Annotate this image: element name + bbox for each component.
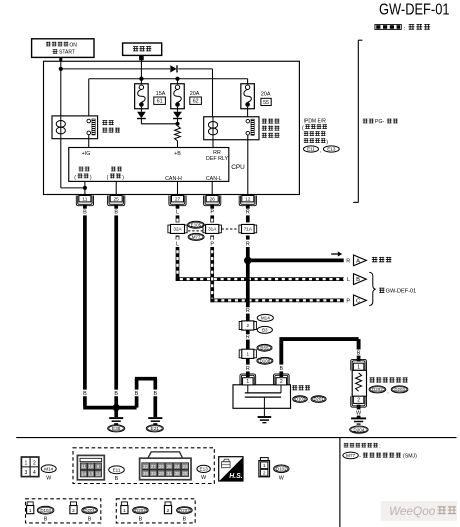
svg-text:W: W (201, 475, 206, 481)
svg-text:L: L (347, 277, 350, 283)
relay ignition (coil+contact) (52, 116, 98, 139)
dashed group box E11 E13 (73, 448, 214, 484)
svg-text:D202: D202 (135, 508, 146, 513)
label ground(power) (74, 167, 92, 181)
wire R stub to capacitor pin1 (246, 371, 250, 377)
svg-text:D100: D100 (260, 358, 271, 363)
svg-text:B: B (114, 210, 118, 216)
svg-text:2: 2 (357, 398, 360, 404)
svg-text:12: 12 (245, 196, 251, 202)
pin 25 (108, 196, 125, 206)
capacitor box (233, 385, 291, 409)
label L (176, 242, 179, 248)
connector ref E11 E13 ovals (304, 146, 340, 154)
dashed group box D103 D201 (26, 499, 101, 523)
svg-text:PG-: PG- (375, 119, 384, 125)
svg-text:4: 4 (33, 470, 36, 476)
connector ref D103 D201 ovals (293, 396, 326, 404)
label P (210, 242, 214, 248)
wire R horizontal to arrow A (248, 259, 344, 263)
pin 12 (239, 196, 256, 206)
svg-text:GW-DEF-01: GW-DEF-01 (379, 2, 450, 19)
pin 26 (204, 196, 221, 206)
svg-text:R: R (246, 210, 250, 216)
svg-text:D202: D202 (372, 387, 383, 392)
svg-text:M14: M14 (261, 316, 270, 321)
wire R upper (246, 215, 250, 222)
svg-text:,: , (387, 389, 388, 395)
wire stub pin 26 (210, 205, 214, 209)
connector ref E11 oval (109, 466, 125, 482)
svg-text:R: R (346, 259, 350, 265)
ground defogger (351, 418, 366, 424)
svg-text:15A: 15A (156, 91, 166, 97)
defogger pin 1 (351, 359, 367, 370)
wire R stub (246, 359, 250, 365)
IPDM E/R outer box (44, 61, 300, 194)
wire bus line C (89, 79, 248, 119)
wire CAN-H striped lower + horizontal to arrow B (176, 247, 344, 281)
svg-text:B: B (135, 391, 139, 397)
node ground junction (113, 404, 120, 411)
wire battery feed (139, 55, 144, 85)
wire CAN-L striped lower + horizontal to arrow C (211, 247, 344, 302)
svg-text:D201: D201 (313, 397, 324, 402)
fuse 15A 61 (135, 84, 166, 109)
svg-text:IPDM E/R: IPDM E/R (304, 118, 327, 124)
label R (246, 210, 250, 216)
wire relay2 contact to pin 12 (247, 135, 249, 195)
svg-text:24: 24 (175, 464, 180, 469)
wire relay1 contact to +IG (88, 135, 90, 148)
svg-text:ON: ON (69, 42, 77, 48)
svg-text:CAN-L: CAN-L (206, 176, 222, 182)
wire pin25 ground run (114, 215, 118, 417)
svg-text:11: 11 (82, 196, 87, 202)
svg-text:2: 2 (33, 461, 36, 467)
svg-text:B: B (88, 516, 92, 522)
svg-text:D203: D203 (394, 387, 405, 392)
connector ref M14 oval (41, 465, 56, 481)
label next page (372, 257, 392, 262)
label rear defogger relay (262, 119, 280, 138)
node coil return junction (83, 186, 87, 190)
svg-text:-: - (359, 454, 361, 460)
pin 11 (76, 196, 93, 206)
svg-text:B: B (183, 516, 187, 522)
wire ground branch pi (135, 379, 157, 417)
svg-text:WeeQoo: WeeQoo (389, 504, 436, 518)
label R (246, 242, 250, 248)
connector ref D203 oval (177, 507, 193, 523)
label see following (344, 443, 381, 450)
svg-text:2: 2 (280, 379, 283, 385)
svg-text:D102: D102 (276, 466, 287, 471)
connector view E13 grid (140, 452, 191, 480)
capacitor pin 2 (273, 374, 289, 385)
svg-text:W: W (46, 475, 51, 481)
H.S. mark (219, 457, 243, 481)
svg-text:B: B (357, 350, 361, 356)
svg-text:+IG: +IG (82, 151, 91, 157)
capacitor pin 1 (240, 374, 256, 385)
svg-text:E11: E11 (113, 467, 121, 472)
svg-text:M14: M14 (44, 466, 53, 471)
node ignition junction (59, 67, 63, 71)
connector B55/D100 inline (239, 349, 256, 358)
label B (114, 391, 118, 397)
svg-text:2: 2 (247, 323, 250, 328)
svg-text:B: B (279, 366, 283, 372)
node diode join junction (175, 122, 179, 126)
connector 31A (203, 224, 221, 233)
wire CAN-L striped mid (210, 236, 214, 240)
label see PG-POWER (363, 119, 398, 126)
svg-text:DEF RLY: DEF RLY (206, 156, 228, 162)
svg-text:26: 26 (210, 196, 216, 202)
watermark WeeQoo (381, 501, 457, 521)
wire ground power to pin 11 (84, 181, 86, 195)
capacitor element (245, 385, 281, 416)
svg-text:26: 26 (159, 464, 164, 469)
svg-text:12: 12 (96, 471, 101, 476)
svg-text:(: ( (74, 175, 76, 181)
defogger pin 2 (351, 396, 367, 407)
wire stub to ground (357, 416, 361, 418)
connector ref D102 oval (274, 465, 289, 482)
connector ref M14 B3 ovals (257, 314, 273, 333)
svg-text:D103: D103 (295, 397, 306, 402)
label to GW-DEF-01 (379, 288, 416, 295)
wire diode join (141, 123, 177, 125)
connector 32A (168, 224, 187, 233)
svg-text:B: B (44, 516, 48, 522)
wire CAN-H to pin 27 (177, 181, 179, 195)
svg-text:32A: 32A (173, 227, 182, 232)
connector ref E13 oval (197, 465, 210, 481)
connector view 2 D203 (164, 502, 171, 514)
wire stub pin 11 (83, 205, 87, 209)
svg-text:20A: 20A (190, 91, 200, 97)
connector ref D202 D203 ovals (369, 386, 408, 395)
label IPDM E/R (302, 118, 328, 145)
label B (135, 391, 139, 397)
svg-text:+B: +B (174, 151, 181, 157)
wire CAN-H striped upper (176, 215, 180, 222)
ground E21 (146, 418, 163, 432)
wire pin11 ground run (83, 215, 136, 407)
connector view E11 grid (77, 455, 104, 479)
label R (246, 308, 250, 314)
svg-text:GW-DEF-01: GW-DEF-01 (386, 289, 417, 295)
resistor R1 to +B (175, 126, 181, 148)
connector view 1 D103 (27, 502, 34, 514)
svg-text:B: B (114, 391, 118, 397)
wire R down (246, 262, 250, 307)
wire R stub (246, 314, 250, 321)
svg-text:29: 29 (159, 471, 164, 476)
svg-text:E13: E13 (327, 147, 336, 152)
svg-text:D201: D201 (84, 508, 95, 513)
svg-text:D103: D103 (40, 508, 51, 513)
svg-text:R: R (246, 334, 250, 340)
label R (346, 259, 350, 265)
title GW-DEF-01 (379, 2, 450, 19)
svg-text:31A: 31A (208, 227, 217, 232)
svg-text:B: B (356, 277, 360, 283)
svg-text:25: 25 (114, 196, 120, 202)
svg-text:E13: E13 (200, 467, 209, 472)
wire fuse3 to relay contact (247, 107, 249, 119)
connector M14/B3 inline (239, 321, 256, 330)
wire fuse2 output (177, 107, 179, 124)
svg-text:1: 1 (357, 365, 360, 371)
svg-text:E11: E11 (307, 147, 315, 152)
fuse 20A 55 (241, 84, 271, 109)
svg-text:32: 32 (143, 464, 148, 469)
label R (246, 366, 250, 372)
wire B stub to capacitor pin2 (279, 371, 283, 377)
svg-text:P: P (210, 210, 214, 216)
svg-text:,: , (308, 398, 309, 404)
brace to GW-DEF-01 (369, 272, 375, 305)
svg-text:62: 62 (193, 99, 199, 105)
ground capacitor internal (258, 417, 272, 423)
connector ref M77 SMJ (343, 452, 417, 460)
label B (279, 366, 283, 372)
node battery junction (139, 77, 143, 81)
arrow A next page (354, 255, 367, 266)
svg-text:1: 1 (263, 463, 266, 469)
diode D1 horizontal (170, 65, 177, 72)
svg-text:W: W (279, 476, 284, 482)
ignition switch box (32, 39, 94, 58)
svg-text:31: 31 (167, 471, 172, 476)
label B (114, 210, 118, 216)
svg-text:23: 23 (183, 464, 188, 469)
label ignition relay (102, 120, 120, 133)
wire R stub (246, 340, 250, 350)
connector ref D201 oval (82, 507, 98, 523)
svg-text:1: 1 (25, 461, 28, 467)
arrow C (354, 295, 367, 306)
svg-text:(: ( (302, 125, 304, 131)
svg-text:71A: 71A (244, 227, 253, 232)
dashed group box D202 D203 (116, 499, 195, 523)
label B (153, 391, 157, 397)
svg-text:E105: E105 (191, 222, 202, 227)
svg-text:2: 2 (263, 471, 266, 477)
svg-text:30: 30 (175, 471, 180, 476)
wire CAN-L to pin 26 (211, 181, 213, 195)
svg-text:B3: B3 (262, 328, 268, 333)
wire stub pin 27 (176, 205, 180, 209)
svg-text:27: 27 (151, 464, 156, 469)
node R junction (244, 257, 252, 265)
connector ref D202 oval (133, 507, 149, 523)
label capacitor (292, 385, 310, 390)
svg-text:,: , (320, 148, 321, 154)
svg-text:2: 2 (72, 508, 75, 514)
label B (357, 350, 361, 356)
svg-text:): ) (326, 139, 328, 145)
svg-text:B: B (83, 210, 87, 216)
connector view M14 grid (21, 457, 38, 477)
wire CAN-L striped upper (210, 215, 214, 222)
wire B capacitor to defogger (279, 339, 358, 365)
svg-text:27: 27 (175, 196, 181, 202)
node fuse2 junction (175, 77, 179, 85)
svg-text::: : (379, 444, 380, 450)
wire fuse1 output (140, 107, 142, 124)
svg-text:28: 28 (183, 471, 188, 476)
svg-text:61: 61 (157, 99, 163, 105)
svg-text:B: B (153, 391, 157, 397)
separator line (16, 437, 456, 439)
svg-text:H.S.: H.S. (229, 473, 242, 480)
svg-text:CPU: CPU (231, 164, 245, 171)
svg-text:): ) (90, 175, 92, 181)
svg-text:): ) (122, 175, 124, 181)
label ground(signal) (107, 167, 125, 181)
svg-text:1: 1 (123, 508, 126, 514)
svg-text:R: R (246, 366, 250, 372)
connector ref B55 D100 ovals (257, 344, 273, 364)
label B (83, 210, 87, 216)
wire diode line to rear defogger relay coil (61, 69, 213, 117)
label P (346, 299, 350, 305)
svg-text:L: L (176, 242, 179, 248)
svg-text:P: P (210, 242, 214, 248)
wire R stub (246, 330, 250, 334)
label rear window defogger (369, 377, 407, 382)
svg-text:M77: M77 (346, 453, 355, 458)
connector view 1 D202 (121, 502, 128, 514)
svg-text:START: START (59, 50, 75, 56)
label R (246, 334, 250, 340)
svg-text:E21: E21 (151, 426, 160, 432)
svg-text:B55: B55 (260, 345, 269, 350)
connector ref E105 M77 ovals (188, 221, 206, 240)
svg-text:55: 55 (263, 100, 269, 106)
svg-text:D204: D204 (353, 427, 364, 432)
label P (210, 210, 214, 216)
svg-text:(: ( (107, 175, 109, 181)
arrow B (354, 274, 367, 285)
reference box divider (339, 438, 341, 527)
svg-text:R: R (246, 308, 250, 314)
svg-text:1: 1 (29, 508, 32, 514)
bracket see PG-POWER (353, 40, 362, 202)
svg-text:B: B (139, 516, 143, 522)
diode D2 down (137, 112, 146, 119)
connector ref D204 oval (350, 426, 368, 433)
svg-text:10: 10 (88, 464, 93, 469)
battery box (123, 43, 162, 55)
svg-text:3: 3 (25, 470, 28, 476)
arrow marker (331, 252, 342, 257)
svg-text:1: 1 (247, 351, 250, 356)
svg-text:B: B (83, 391, 87, 397)
svg-text:1: 1 (246, 379, 249, 385)
wire B stub to defogger pin1 (357, 356, 361, 362)
svg-text:38: 38 (143, 471, 148, 476)
svg-text:2: 2 (167, 508, 170, 514)
connector ref D103 oval (37, 506, 54, 522)
svg-text:A: A (356, 259, 360, 265)
wire dashed 31A-71A (222, 228, 239, 230)
svg-text:(SMJ): (SMJ) (403, 454, 417, 460)
svg-text:L: L (176, 210, 179, 216)
svg-text:20A: 20A (261, 91, 271, 97)
connector view D102 (259, 458, 270, 477)
svg-text:11: 11 (81, 464, 86, 469)
wire ignition feed (59, 57, 62, 116)
label L (347, 277, 350, 283)
diode D3 down (173, 112, 182, 119)
svg-text:CAN-H: CAN-H (165, 176, 182, 182)
fuse 20A 62 (171, 84, 202, 109)
wire stub pin 12 (246, 205, 250, 209)
rear window defogger resistor box (352, 370, 366, 396)
label B (83, 391, 87, 397)
svg-text:E38: E38 (112, 426, 121, 432)
pin 27 (169, 196, 186, 206)
svg-text:M77: M77 (192, 234, 201, 239)
svg-text:13: 13 (88, 471, 93, 476)
svg-text:R: R (246, 242, 250, 248)
label L (176, 210, 179, 216)
svg-text:33: 33 (151, 471, 156, 476)
wire CAN-H striped mid (176, 236, 180, 240)
connector view 2 D201 (70, 502, 77, 514)
svg-text:B: B (115, 476, 119, 482)
relay rear window defogger (coil+contact) (204, 117, 259, 140)
connector 71A (239, 224, 257, 233)
wire stub pin 25 (114, 205, 118, 209)
legend data-line symbol (375, 24, 430, 32)
svg-text:D203: D203 (179, 508, 190, 513)
CPU box (69, 148, 245, 183)
svg-text:C: C (356, 299, 360, 305)
wire relay2 coil to CPU (212, 140, 214, 148)
label W (356, 411, 362, 417)
wire R to junction (246, 247, 250, 262)
svg-text:P: P (346, 299, 350, 305)
wire relay1 coil return (61, 139, 85, 188)
wire R mid (246, 236, 250, 240)
wire ground signal to pin 25 (115, 181, 117, 195)
ground E38 (108, 418, 125, 432)
svg-text:14: 14 (81, 471, 86, 476)
svg-text:25: 25 (167, 464, 172, 469)
wire defogger pin2 stub (357, 405, 361, 410)
